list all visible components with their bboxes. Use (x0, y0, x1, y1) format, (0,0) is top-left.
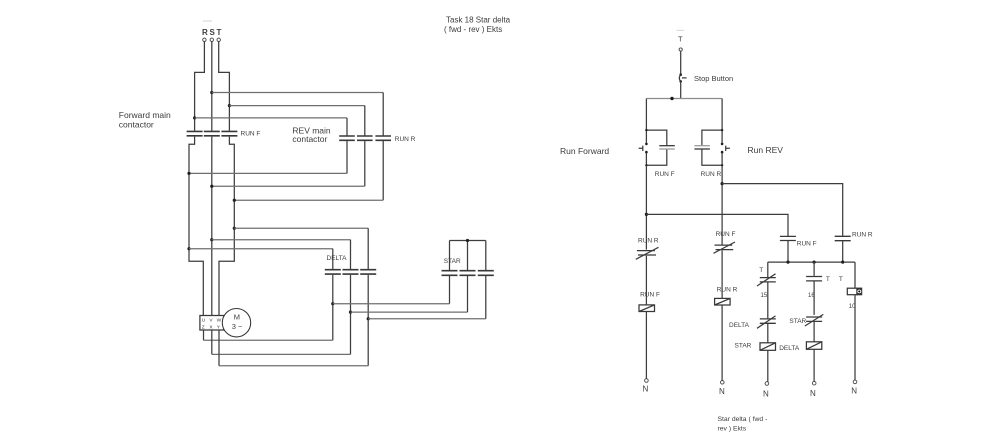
wire motor bottom 3 (218, 330, 220, 366)
node rail1 start (721, 182, 724, 185)
branch timer NC: wire down (767, 262, 769, 277)
svg-text:Run Forward: Run Forward (560, 146, 609, 156)
svg-text:STAR: STAR (789, 318, 806, 325)
terminal N delta (812, 381, 816, 385)
svg-text:Z: Z (202, 324, 205, 330)
faint mark above RST (203, 20, 212, 22)
wire REV inner out (346, 141, 348, 174)
wire S (211, 42, 213, 131)
wire T down (680, 51, 682, 74)
node rail junction dot (670, 97, 673, 100)
svg-text:T: T (759, 267, 763, 274)
terminal T (679, 48, 682, 51)
svg-text:Star delta ( fwd -: Star delta ( fwd - (718, 416, 768, 423)
svg-text:T: T (217, 28, 222, 37)
contact RUN R NC (636, 247, 659, 259)
node split fwd (645, 129, 647, 131)
svg-text:RUN F: RUN F (241, 131, 261, 138)
svg-text:RUN F: RUN F (640, 292, 660, 299)
contactor RUN F pole 1 (187, 131, 203, 135)
wire coil to N fwd (645, 312, 647, 379)
wire REV middle out (364, 141, 366, 186)
svg-text:N: N (851, 386, 857, 395)
branch timer NO: wire down (813, 262, 815, 276)
wire fwd branch down (645, 165, 647, 249)
terminal R (203, 38, 206, 41)
node rail3 c (841, 261, 844, 264)
wire timer coil to N (854, 295, 856, 380)
wire R to REV inner (195, 117, 347, 119)
svg-text:N: N (763, 390, 769, 399)
wire to DELTA pole1 (189, 248, 333, 250)
contactor RUN R pole 2 (357, 136, 373, 140)
svg-text:3 ~: 3 ~ (232, 322, 243, 331)
svg-text:M: M (234, 313, 240, 322)
node rail3 b (813, 261, 816, 264)
svg-text:STAR: STAR (444, 258, 461, 265)
branch timer coil: wire down (854, 262, 856, 288)
wire FWD out 1 (189, 137, 203, 316)
svg-text:N: N (643, 385, 649, 394)
node merge 3 (233, 199, 236, 202)
terminal N rev (721, 381, 725, 385)
wire DELTA coil to N (813, 349, 815, 381)
svg-text:T: T (678, 35, 683, 44)
wire below nc fwd (645, 256, 647, 305)
node T junction (228, 104, 231, 107)
wire to STAR pole2 (351, 311, 468, 313)
wire motor bottom 2 (211, 330, 213, 354)
wire DELTA out 1 (332, 275, 334, 340)
wire STAR coil to N (767, 350, 769, 381)
node star tap 2 (349, 311, 352, 314)
svg-text:RUN R: RUN R (852, 231, 873, 238)
node merge 2 (210, 185, 213, 188)
contactor DELTA pole 2 (343, 270, 359, 274)
bottom caption (718, 416, 768, 433)
stop button PB1 (679, 73, 686, 82)
contact DELTA NC (757, 316, 776, 328)
contactor STAR pole 1 (442, 271, 458, 276)
node delta tap 3 (233, 227, 236, 230)
terminal T (217, 38, 220, 41)
terminal N star (765, 382, 769, 386)
node S junction (210, 91, 213, 94)
svg-text:T: T (839, 276, 843, 283)
wire T NO to STAR NC (813, 281, 815, 315)
node delta tap 2 (210, 238, 213, 241)
contact T NC (757, 274, 776, 286)
wire left drop (645, 99, 647, 131)
contact RUN R aux (694, 130, 722, 165)
REV main contactor label (292, 126, 331, 145)
wire T to REV middle (229, 105, 364, 107)
svg-text:DELTA: DELTA (327, 255, 348, 262)
wire star upper 2 (467, 241, 469, 271)
start button rev (721, 130, 730, 165)
svg-text:RUN R: RUN R (638, 238, 659, 245)
wire star upper 3 (485, 241, 487, 271)
wire below RUN F NO (787, 241, 789, 262)
svg-text:W: W (217, 318, 222, 324)
svg-text:DELTA: DELTA (779, 345, 800, 352)
contact T NO (806, 277, 822, 281)
contactor STAR pole 2 (460, 271, 476, 276)
contactor RUN F pole 3 (221, 131, 237, 135)
wire rail2 (646, 214, 788, 236)
contactor DELTA pole 1 (325, 270, 341, 274)
wire below RUN R NO (842, 241, 844, 262)
svg-text:( fwd - rev ) Ekts: ( fwd - rev ) Ekts (444, 25, 502, 34)
node delta tap 1 (187, 247, 190, 250)
node split rev (721, 129, 723, 131)
terminal S (210, 38, 213, 41)
contactor RUN F pole 2 (204, 131, 220, 135)
contactor RUN R pole 1 (339, 136, 355, 140)
wire FWD out 3 (219, 137, 234, 316)
svg-text:contactor: contactor (119, 120, 154, 130)
svg-text:RUN F: RUN F (655, 171, 675, 178)
title block (444, 16, 511, 35)
wire star upper 1 (449, 241, 451, 271)
wire rail1 (722, 184, 843, 236)
wire DELTA out 3 (367, 275, 369, 366)
svg-text:N: N (810, 389, 816, 398)
coil STAR (760, 324, 776, 351)
node star tap 1 (331, 302, 334, 305)
contact RUN R NO (835, 236, 851, 240)
svg-text:S: S (210, 28, 216, 37)
svg-text:rev ) Ekts: rev ) Ekts (718, 426, 747, 433)
node merge 1 (187, 172, 190, 175)
svg-text:RUN R: RUN R (395, 136, 416, 143)
node rail2 start (645, 213, 648, 216)
svg-text:contactor: contactor (292, 134, 327, 144)
wire below nc rev (721, 250, 723, 298)
wire rev branch down (721, 165, 723, 244)
svg-text:T: T (826, 276, 830, 283)
svg-text:RUN F: RUN F (797, 240, 817, 247)
wire right drop (721, 99, 723, 131)
terminal N timer (853, 380, 857, 384)
wire DELTA out 2 (350, 275, 352, 355)
svg-text:RUN F: RUN F (716, 231, 736, 238)
motor terminal box (200, 316, 224, 331)
contact STAR NC (805, 314, 823, 326)
svg-text:15: 15 (761, 293, 768, 299)
contact RUN F NC (714, 242, 736, 253)
svg-text:Task 18 Star delta: Task 18 Star delta (446, 16, 511, 25)
wire to DELTA pole2 (212, 239, 351, 241)
wire FWD out 2 (211, 137, 213, 316)
node star tap 3 (367, 317, 370, 320)
start button fwd (639, 130, 648, 165)
svg-text:STAR: STAR (735, 343, 752, 350)
svg-text:Forward main: Forward main (119, 110, 171, 120)
coil T timer (847, 288, 861, 295)
svg-text:RUN R: RUN R (717, 287, 738, 294)
wire REV outer out (382, 141, 384, 200)
wire to DELTA pole3 (234, 227, 368, 229)
contactor STAR pole 3 (478, 271, 494, 276)
coil DELTA (806, 322, 821, 349)
svg-text:U: U (202, 318, 206, 324)
node R junction (193, 116, 196, 119)
wire top rail (646, 98, 722, 100)
wire to STAR pole3 (368, 318, 486, 320)
node star point (466, 239, 469, 242)
wire R (195, 42, 205, 131)
contact RUN F aux (646, 130, 674, 165)
coil RUN R (715, 298, 731, 305)
faint mark above T (677, 29, 685, 31)
wire star point bar (450, 240, 486, 242)
terminal N fwd (645, 379, 649, 383)
wire T (219, 42, 230, 131)
wire motor bottom 1 (203, 330, 205, 340)
wire T NC to DELTA NC (767, 282, 769, 318)
wire S to REV outer (212, 92, 383, 94)
wire coil to N rev (721, 305, 723, 381)
contactor RUN R pole 3 (375, 136, 391, 140)
node rejoin fwd (645, 164, 647, 166)
Forward main contactor label (119, 110, 171, 130)
contact RUN F NO (780, 236, 796, 240)
contactor DELTA pole 3 (360, 270, 376, 274)
wire rail3 (768, 261, 855, 263)
node rejoin rev (721, 164, 723, 166)
node rail3 a (786, 261, 789, 264)
svg-text:RUN R: RUN R (701, 171, 722, 178)
wire to STAR pole1 (333, 303, 450, 305)
svg-text:R: R (202, 28, 208, 37)
svg-text:Stop Button: Stop Button (694, 74, 733, 83)
coil RUN F (639, 305, 655, 312)
svg-text:N: N (719, 387, 725, 396)
svg-text:Run REV: Run REV (748, 145, 784, 155)
svg-text:DELTA: DELTA (729, 322, 750, 329)
wire stop to rail (680, 81, 682, 98)
motor M1 (222, 309, 250, 337)
